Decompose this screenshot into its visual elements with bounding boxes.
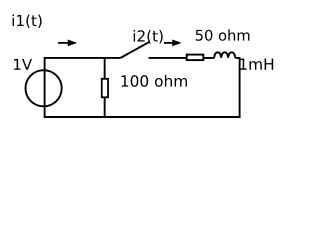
current arrow i2 bbox=[164, 40, 181, 46]
wire right bbox=[239, 57, 241, 117]
label i1(t) bbox=[13, 14, 42, 28]
label i2(t) bbox=[134, 30, 163, 44]
wire middle branch upper bbox=[104, 58, 106, 79]
resistor 50 ohm bbox=[187, 55, 204, 61]
current arrow i1 bbox=[58, 40, 76, 46]
wire coil to corner bbox=[235, 57, 240, 59]
wire bottom bbox=[44, 116, 241, 118]
wire middle branch lower bbox=[104, 97, 106, 117]
voltage source V1 bbox=[25, 70, 61, 106]
label 50 ohm bbox=[196, 29, 250, 40]
wire box to coil bbox=[204, 57, 214, 59]
wire switch right terminal bbox=[149, 57, 187, 59]
wire top-left segment bbox=[44, 57, 121, 59]
label 100 ohm bbox=[122, 75, 187, 87]
wire left bbox=[44, 58, 46, 117]
label 1V bbox=[14, 59, 32, 70]
resistor 100 ohm bbox=[102, 79, 108, 98]
label 1mH bbox=[240, 58, 273, 69]
switch S1 blade bbox=[120, 42, 149, 58]
inductor 1mH coil bbox=[214, 52, 235, 58]
